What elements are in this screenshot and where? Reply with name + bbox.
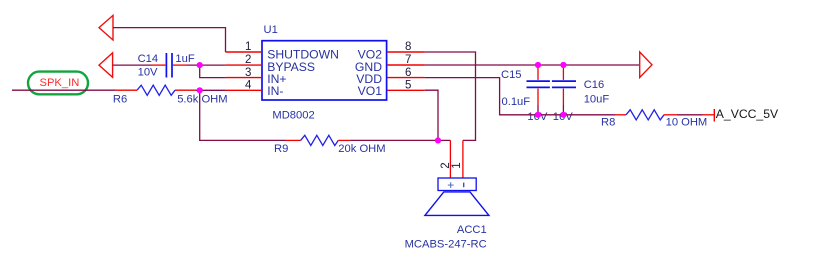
capacitor C15 — [527, 65, 550, 115]
node: GND rail / C15 top — [535, 62, 541, 68]
wire GND (pin 7) rail to output port — [425, 64, 640, 66]
svg-text:7: 7 — [405, 54, 411, 66]
svg-text:R9: R9 — [274, 143, 288, 155]
wire SPK_IN to R6 — [12, 89, 115, 91]
svg-text:A_VCC_5V: A_VCC_5V — [716, 107, 779, 121]
wire R8 to power port — [677, 114, 703, 116]
svg-text:MCABS-247-RC: MCABS-247-RC — [405, 239, 487, 251]
wire R6 to pin 4 (IN-) — [196, 89, 226, 91]
capacitor C16 — [552, 65, 576, 115]
wire IN- node down to feedback row — [200, 90, 285, 140]
pin 5 stub — [388, 89, 425, 91]
svg-text:0.1uF: 0.1uF — [502, 96, 531, 108]
svg-text:2: 2 — [440, 162, 452, 168]
svg-text:ACC1: ACC1 — [457, 224, 487, 236]
svg-text:IN-: IN- — [267, 84, 283, 98]
wire VO1 (pin 5) to feedback junction — [425, 90, 438, 140]
resistor R9 — [285, 135, 350, 145]
wire from P2 to C14 left lead — [113, 64, 152, 66]
svg-text:10 OHM: 10 OHM — [666, 116, 708, 128]
wire from C14 right lead to pin 2 of U1 — [187, 64, 226, 66]
pin 8 stub — [388, 51, 425, 53]
node: IN- junction — [197, 87, 203, 93]
svg-text:+: + — [447, 178, 454, 192]
wire VO2 (pin 8) to speaker - lead — [425, 52, 476, 140]
resistor R8 — [615, 110, 677, 120]
node: BYPASS junction — [197, 62, 203, 68]
svg-text:1: 1 — [451, 162, 463, 168]
svg-text:2: 2 — [245, 54, 251, 66]
wire VDD (pin 6) down to supply rail — [425, 78, 615, 115]
svg-text:U1: U1 — [264, 24, 278, 36]
op-amp U1 MD8002 body — [262, 41, 387, 100]
pin 6 stub — [388, 77, 425, 79]
svg-text:6: 6 — [405, 67, 411, 79]
svg-text:VO1: VO1 — [358, 84, 383, 98]
speaker ACC1 body — [425, 178, 489, 215]
svg-text:C16: C16 — [584, 79, 605, 91]
port arrow P1 (shutdown input, top left) — [99, 15, 113, 40]
svg-text:1uF: 1uF — [175, 53, 194, 65]
speaker + lead (pin 2) — [449, 140, 451, 178]
node: supply rail / C15 bottom — [535, 112, 541, 118]
net label SPK_IN (green stadium) — [28, 72, 88, 95]
node: supply rail / C16 bottom — [560, 112, 566, 118]
svg-text:C15: C15 — [501, 69, 522, 81]
wire R9 to speaker + lead — [350, 139, 450, 141]
resistor R6 — [115, 85, 196, 95]
pin 1 stub — [226, 51, 263, 53]
svg-text:SPK_IN: SPK_IN — [40, 77, 80, 89]
node: GND rail / C16 top — [560, 62, 566, 68]
wire from P1 to pin 1 of U1 — [113, 28, 226, 52]
svg-text:10V: 10V — [138, 67, 158, 79]
svg-text:10uF: 10uF — [584, 94, 610, 106]
pin 2 stub — [226, 64, 262, 66]
power port tick — [713, 109, 715, 122]
svg-text:5: 5 — [405, 80, 411, 92]
svg-text:5.6k OHM: 5.6k OHM — [177, 94, 227, 106]
pin 4 stub — [226, 89, 262, 91]
svg-text:4: 4 — [245, 80, 252, 92]
power port pin — [703, 114, 715, 116]
port arrow P3 (output, right) — [640, 52, 652, 78]
pin 7 stub — [388, 64, 425, 66]
svg-text:MD8002: MD8002 — [272, 110, 314, 122]
speaker cone — [425, 192, 489, 216]
port arrow P2 (bypass line, left) — [99, 53, 113, 78]
svg-text:1: 1 — [245, 41, 251, 53]
svg-text:R6: R6 — [113, 94, 127, 106]
wire from bypass node down to pin 3 (IN+) — [200, 65, 226, 78]
speaker - lead (pin 1) — [462, 140, 464, 178]
svg-text:8: 8 — [405, 41, 411, 53]
pin 3 stub — [226, 77, 262, 79]
svg-text:C14: C14 — [138, 53, 159, 65]
svg-text:3: 3 — [245, 67, 251, 79]
capacitor C14 — [152, 53, 187, 78]
node: VO1 feedback junction — [435, 137, 441, 143]
svg-text:20k OHM: 20k OHM — [338, 143, 385, 155]
svg-text:R8: R8 — [601, 116, 615, 128]
